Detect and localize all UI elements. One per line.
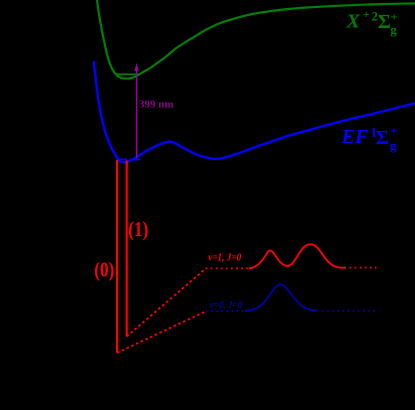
svg-text:+: + <box>363 7 370 21</box>
ionization arrow 399 nm (magenta) <box>136 67 138 158</box>
leader dashed line to v=0 wavefunction (red) <box>117 311 206 353</box>
v=0 wavefunction (navy) <box>245 284 318 311</box>
svg-text:g: g <box>390 138 397 153</box>
curve EF double-well potential (blue) <box>94 61 415 163</box>
level line v+=0 in ion well (green) <box>116 73 139 75</box>
svg-text:X: X <box>346 11 361 33</box>
svg-text:(0): (0) <box>94 258 114 282</box>
svg-text:399 nm: 399 nm <box>139 99 174 111</box>
v=1 baseline right dotted (red) <box>350 267 377 269</box>
pump line (0) (red vertical) <box>116 160 118 353</box>
v=0 baseline right dotted (navy) <box>322 310 376 312</box>
label X+ 2Sigma_g+ (green) <box>346 7 398 37</box>
label EF 1Sigma_g+ (blue) <box>341 124 398 153</box>
svg-text:EF: EF <box>341 126 369 148</box>
v=1 baseline left dotted (red) <box>206 267 251 269</box>
svg-text:Σ: Σ <box>378 11 391 33</box>
svg-text:v=0, J=0: v=0, J=0 <box>210 300 243 311</box>
v=1 wavefunction (red) <box>249 244 346 268</box>
svg-text:v=1, J=0: v=1, J=0 <box>208 253 242 264</box>
pump line (1) (red vertical) <box>126 161 128 337</box>
curve X+ ion potential (green) <box>97 0 415 79</box>
svg-text:+: + <box>390 124 397 138</box>
leader dashed line to v=1 wavefunction (red) <box>127 269 206 337</box>
svg-text:(1): (1) <box>128 217 148 241</box>
v=0 baseline left dotted (navy) <box>206 310 246 312</box>
svg-text:+: + <box>391 10 398 24</box>
level line v=0 in EF inner well (blue) <box>116 158 141 160</box>
svg-text:g: g <box>390 22 397 37</box>
svg-text:Σ: Σ <box>376 127 389 149</box>
